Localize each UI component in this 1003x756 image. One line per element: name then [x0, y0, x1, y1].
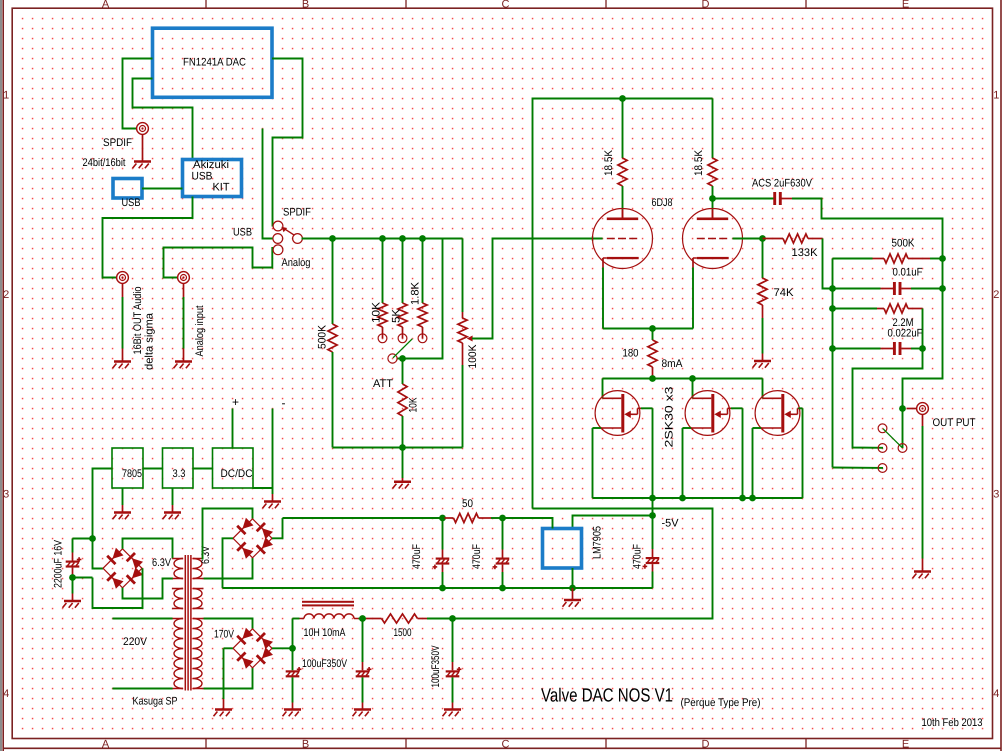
- svg-text:ATT: ATT: [373, 378, 393, 390]
- svg-text:10K: 10K: [408, 397, 420, 413]
- svg-text:A: A: [102, 739, 110, 751]
- svg-text:100uF350V: 100uF350V: [430, 645, 442, 687]
- resistor R2 10K: [382, 239, 384, 304]
- svg-text:18.5K: 18.5K: [603, 149, 615, 176]
- svg-text:1.8K: 1.8K: [410, 281, 422, 305]
- resistor R4 1.8K: [422, 239, 424, 304]
- svg-text:Akizuki: Akizuki: [193, 159, 229, 171]
- wire input bus: [302, 238, 463, 240]
- ground below Analog input: [183, 284, 185, 297]
- tube V2 6DJ8 right triode: [683, 209, 743, 269]
- svg-text:D: D: [702, 0, 710, 11]
- ground below LM7905: [572, 568, 574, 588]
- wire B+ riser to top bus: [533, 99, 713, 509]
- wire bridge2 plus to 50 ohm row: [272, 518, 283, 538]
- wire B+ rail to riser: [453, 509, 713, 619]
- switch SW3 output contacts: [878, 424, 887, 433]
- wire bridge1 AC top to 6.3V winding: [123, 539, 173, 559]
- svg-text:6DJ8: 6DJ8: [652, 197, 673, 209]
- wire ladder rail to switch bottom contact: [833, 467, 884, 469]
- wire USB box to Akizuki: [142, 188, 183, 190]
- svg-text:3: 3: [993, 488, 999, 500]
- node 2200uF bottom: [73, 577, 93, 579]
- svg-text:7805: 7805: [122, 468, 142, 480]
- resistor R15 1500: [363, 618, 367, 620]
- svg-text:18.5K: 18.5K: [693, 149, 705, 176]
- svg-text:E: E: [902, 0, 909, 11]
- svg-text:2SK30 x3: 2SK30 x3: [664, 387, 676, 448]
- svg-text:2: 2: [993, 289, 999, 301]
- resistor R8 18.5K right: [712, 99, 714, 159]
- svg-text:+: +: [232, 395, 239, 409]
- wire bridge3 plus node: [272, 647, 293, 649]
- switch SW2 ATT common contact: [388, 354, 397, 363]
- svg-text:D: D: [702, 739, 710, 751]
- switch SW2 ATT tap contacts: [378, 334, 387, 343]
- transformer primary 6.3V winding left top: [173, 558, 184, 560]
- IC U4 7805 box: [112, 448, 143, 488]
- capacitor C4 470uF first: [442, 518, 444, 550]
- node 18.5K ACS tap: [709, 195, 716, 202]
- tube V1 6DJ8 left triode: [593, 209, 653, 269]
- svg-text:Analog: Analog: [282, 257, 311, 269]
- wire 2.2M right down: [922, 309, 924, 349]
- wire source bus: [593, 497, 803, 499]
- svg-text:B: B: [302, 739, 309, 751]
- svg-text:USB: USB: [192, 171, 213, 183]
- capacitor C1 ACS 2uF630V: [713, 198, 774, 200]
- capacitor C5 470uF second: [502, 518, 504, 550]
- transistor Q3 2SK30: [762, 379, 764, 399]
- wire 7805 input from bridge: [93, 469, 113, 539]
- svg-text:470uF: 470uF: [471, 544, 483, 569]
- ground below 7805: [122, 488, 124, 505]
- svg-text:6.3V: 6.3V: [152, 557, 172, 569]
- switch SW3 lever: [883, 429, 902, 448]
- bridge rectifier B3: [233, 628, 273, 669]
- svg-text:16Bit OUT Audio: 16Bit OUT Audio: [132, 287, 144, 355]
- IC U2 Akizuki USB KIT box: [183, 160, 242, 197]
- svg-text:500K: 500K: [892, 238, 916, 250]
- wire 170V winding to bridge3 AC bottom: [204, 668, 253, 689]
- svg-text:100K: 100K: [467, 344, 479, 369]
- capacitor C3 0.022uF: [833, 348, 881, 350]
- transformer T1 core: [184, 555, 186, 691]
- svg-text:3.3: 3.3: [173, 468, 186, 480]
- svg-text:10K: 10K: [371, 301, 383, 323]
- wire bridge2 minus to ground bus: [223, 538, 234, 588]
- svg-text:A: A: [102, 0, 110, 11]
- svg-text:1500: 1500: [394, 627, 412, 639]
- connector J5 OUT PUT: [907, 408, 917, 410]
- wire Akizuki to 16bit OUT connector: [103, 197, 193, 278]
- IC U6 DC/DC box: [213, 448, 254, 488]
- resistor R10 133K: [763, 238, 784, 240]
- svg-text:100uF350V: 100uF350V: [302, 658, 348, 670]
- transistor Q1 2SK30: [602, 379, 604, 399]
- svg-text:-: -: [282, 396, 286, 410]
- ground below 2200uF: [72, 578, 74, 594]
- transistor Q2 2SK30: [692, 379, 694, 399]
- resistor R9 180 8mA: [652, 329, 654, 341]
- capacitor C8 100uF350V first: [292, 648, 294, 670]
- connector J1 SPDIF out: [137, 123, 149, 135]
- ground below OUT PUT: [922, 415, 924, 426]
- connector J2 USB box: [113, 179, 142, 199]
- svg-text:E: E: [902, 739, 909, 751]
- svg-text:DC/DC: DC/DC: [221, 468, 253, 480]
- svg-text:4: 4: [3, 688, 9, 700]
- ground below ATT network: [402, 448, 404, 479]
- svg-text:1: 1: [993, 89, 999, 101]
- wire ATT bottom bus: [333, 447, 463, 449]
- svg-text:FN1241A DAC: FN1241A DAC: [183, 57, 246, 69]
- ground below 3.3: [172, 488, 174, 505]
- svg-text:470uF: 470uF: [632, 544, 644, 569]
- switch SW1 lever arrow: [284, 228, 295, 235]
- svg-text:220V: 220V: [123, 636, 148, 648]
- wire gate bias bus: [603, 378, 763, 380]
- resistor R1 500K: [332, 239, 334, 325]
- svg-text:1: 1: [3, 89, 9, 101]
- svg-text:C: C: [502, 0, 510, 11]
- node OUT junction: [899, 405, 906, 412]
- wire DC/DC plus stub: [232, 409, 234, 449]
- wire bridge1 minus to ground net: [93, 568, 143, 608]
- wire 133K to divider rail: [823, 239, 833, 289]
- svg-text:-5V: -5V: [662, 518, 680, 530]
- wire tube cathodes bus: [602, 268, 604, 329]
- resistor R14 50: [283, 517, 445, 519]
- wire Analog input connector to switch: [164, 247, 273, 278]
- svg-text:180: 180: [623, 348, 639, 360]
- node 1500 output: [449, 615, 456, 622]
- wire right rail: [903, 259, 943, 409]
- svg-text:74K: 74K: [774, 287, 795, 299]
- wire bus T down to ATT common: [397, 239, 443, 359]
- transformer 220V primary winding: [113, 618, 173, 620]
- capacitor C9 100uF350V second: [362, 619, 364, 663]
- transformer 170V secondary winding: [193, 618, 204, 620]
- connector J3 16bit OUT: [117, 272, 129, 284]
- transformer aux winding right middle: [193, 588, 204, 590]
- wire JFET source and drain drops: [592, 428, 594, 498]
- svg-text:170V: 170V: [214, 629, 235, 641]
- svg-text:0.01uF: 0.01uF: [893, 267, 923, 279]
- wire DAC pin to SPDIF out connector: [123, 59, 153, 129]
- svg-text:8mA: 8mA: [662, 358, 684, 370]
- wire regulator chain: [143, 468, 163, 470]
- wire DAC right to USB switch SPDIF contact: [272, 59, 303, 227]
- resistor R7 18.5K left: [622, 99, 624, 159]
- resistor R11 74K: [762, 240, 764, 278]
- transformer aux winding left middle: [172, 588, 183, 590]
- wire ACS cap to right rail: [792, 199, 943, 259]
- wire bridge1 plus output: [93, 539, 104, 569]
- node 7805 input junction: [89, 535, 96, 542]
- svg-text:delta sigma: delta sigma: [144, 312, 156, 370]
- node 500K right: [939, 255, 946, 262]
- node grid stub tick: [592, 236, 594, 241]
- svg-text:SPDIF: SPDIF: [283, 207, 311, 219]
- svg-text:24bit/16bit: 24bit/16bit: [83, 157, 126, 169]
- ground below 16bit OUT: [122, 284, 124, 297]
- capacitor C10 100uF350V third: [452, 619, 454, 663]
- svg-text:KIT: KIT: [213, 182, 230, 194]
- wire 6.3V winding to bridge2 AC2: [204, 558, 253, 579]
- IC U3 LM7905 box: [543, 529, 582, 569]
- resistor R5 10K lower: [402, 359, 404, 385]
- wire left rail of ladder: [832, 259, 834, 468]
- potentiometer R6 100K: [462, 239, 464, 313]
- wire bridge1 AC bottom to winding: [123, 579, 174, 599]
- frame: [0, 0, 2, 751]
- svg-text:2: 2: [3, 289, 9, 301]
- wire OUT node to moving contact: [902, 409, 904, 449]
- svg-text:470uF: 470uF: [411, 544, 423, 569]
- wire wiper to tube grid: [472, 239, 603, 339]
- bridge rectifier B2: [233, 518, 273, 559]
- resistor R12 500K output: [833, 258, 873, 260]
- svg-text:ACS 2uF630V: ACS 2uF630V: [752, 178, 813, 190]
- node bus junctions: [329, 235, 336, 242]
- connector J4 Analog input: [178, 272, 190, 284]
- switch SW2 ATT lever: [393, 339, 412, 358]
- wire USB net to switch middle contact: [263, 129, 273, 239]
- svg-text:USB: USB: [233, 227, 252, 239]
- svg-text:133K: 133K: [792, 247, 819, 259]
- svg-text:OUT PUT: OUT PUT: [933, 417, 976, 429]
- wire 170V winding to bridge3 AC top: [204, 619, 253, 629]
- svg-text:Valve DAC NOS V1: Valve DAC NOS V1: [541, 686, 673, 707]
- wire tube2 grid node: [733, 238, 763, 240]
- wire ground bus -5V section: [223, 587, 653, 589]
- wire LM7905 input from 50 ohm: [503, 518, 553, 529]
- wire -5V to LM7905 output: [573, 516, 653, 529]
- svg-text:B: B: [302, 0, 309, 11]
- bridge rectifier B1: [103, 548, 143, 589]
- wire bridge3 minus to ground: [224, 647, 233, 649]
- node choke output: [359, 615, 366, 622]
- wire junction to 2200uF: [73, 538, 93, 540]
- wire 6.3V winding to bridge2 AC1: [203, 509, 253, 559]
- svg-text:500K: 500K: [317, 324, 329, 349]
- svg-text:4: 4: [993, 688, 999, 700]
- svg-text:C: C: [502, 739, 510, 751]
- transformer secondary 6.3V right top: [193, 558, 204, 560]
- IC U1 FN1241A DAC box: [153, 28, 273, 97]
- capacitor C2 0.01uF: [833, 288, 881, 290]
- svg-text:10H 10mA: 10H 10mA: [304, 627, 347, 639]
- svg-text:USB: USB: [122, 197, 141, 209]
- svg-text:Kasuga SP: Kasuga SP: [133, 696, 178, 708]
- svg-text:50: 50: [462, 498, 473, 510]
- wire DAC pin2 to Akizuki USB KIT: [133, 79, 193, 160]
- svg-text:LM7905: LM7905: [592, 526, 604, 559]
- wire -5V node: [652, 498, 654, 516]
- inductor L1 choke 10H 10mA: [293, 618, 300, 620]
- svg-text:0.022uF: 0.022uF: [888, 328, 923, 340]
- resistor R3 5K: [402, 239, 404, 304]
- pot wiper arrow: [470, 338, 473, 340]
- ground below SPDIF out: [142, 135, 144, 155]
- IC U5 3.3 box: [163, 448, 194, 488]
- svg-text:SPDIF: SPDIF: [103, 137, 132, 149]
- svg-text:5K: 5K: [391, 308, 403, 323]
- svg-text:3: 3: [3, 488, 9, 500]
- capacitor C6 470uF third: [652, 516, 654, 550]
- node ATT common junction: [399, 355, 406, 362]
- wire 0.022 node to switch middle contact: [853, 349, 923, 448]
- svg-text:10th Feb 2013: 10th Feb 2013: [922, 717, 983, 729]
- svg-text:2200uF 16V: 2200uF 16V: [53, 539, 65, 588]
- resistor R13 2.2M: [833, 308, 878, 310]
- capacitor C7 2200uF 16V: [72, 539, 74, 553]
- svg-text:(Perque Type Pre): (Perque Type Pre): [681, 697, 761, 709]
- wire DC/DC minus rail to ground: [253, 487, 273, 489]
- svg-text:Analog input: Analog input: [194, 306, 206, 357]
- switch SW1 input select contacts: [273, 221, 283, 231]
